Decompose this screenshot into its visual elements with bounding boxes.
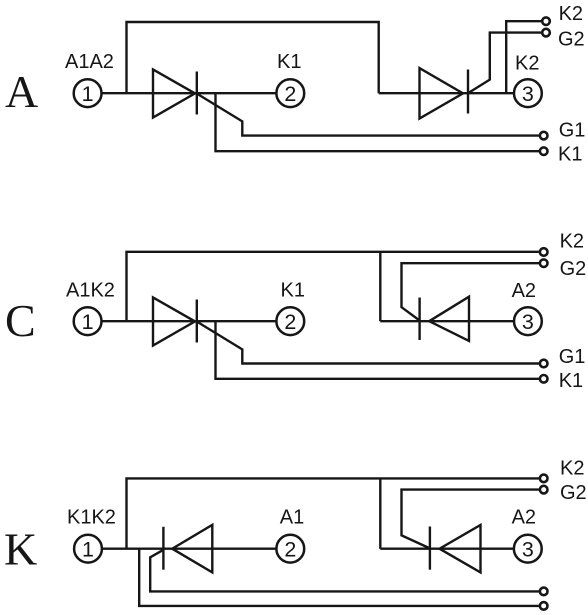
svg-text:G1: G1 — [559, 346, 586, 368]
svg-text:K2: K2 — [560, 230, 584, 252]
svg-text:G1: G1 — [559, 119, 586, 141]
svg-text:K2: K2 — [515, 53, 539, 75]
svg-text:C: C — [5, 295, 36, 346]
svg-text:K: K — [4, 524, 37, 575]
svg-text:A1K2: A1K2 — [66, 280, 115, 302]
svg-text:3: 3 — [522, 82, 534, 106]
svg-text:1: 1 — [82, 82, 94, 106]
svg-text:A2: A2 — [512, 507, 536, 529]
svg-text:1: 1 — [82, 310, 94, 334]
svg-text:K1: K1 — [559, 370, 583, 392]
svg-text:2: 2 — [284, 538, 296, 562]
svg-text:3: 3 — [522, 310, 534, 334]
svg-text:2: 2 — [284, 82, 296, 106]
svg-text:K1: K1 — [277, 51, 301, 73]
svg-text:G2: G2 — [560, 258, 587, 280]
svg-text:3: 3 — [522, 538, 534, 562]
svg-text:K1: K1 — [281, 280, 305, 302]
svg-text:A1A2: A1A2 — [65, 51, 114, 73]
svg-text:A: A — [5, 66, 38, 117]
svg-text:A1: A1 — [280, 507, 304, 529]
svg-text:G2: G2 — [560, 482, 587, 504]
svg-text:2: 2 — [284, 310, 296, 334]
svg-text:1: 1 — [82, 538, 94, 562]
svg-text:K1K2: K1K2 — [67, 507, 116, 529]
svg-text:K2: K2 — [559, 3, 583, 25]
svg-text:K1: K1 — [558, 144, 582, 166]
svg-text:A2: A2 — [512, 280, 536, 302]
svg-text:G2: G2 — [558, 29, 585, 51]
svg-text:K2: K2 — [560, 457, 584, 479]
